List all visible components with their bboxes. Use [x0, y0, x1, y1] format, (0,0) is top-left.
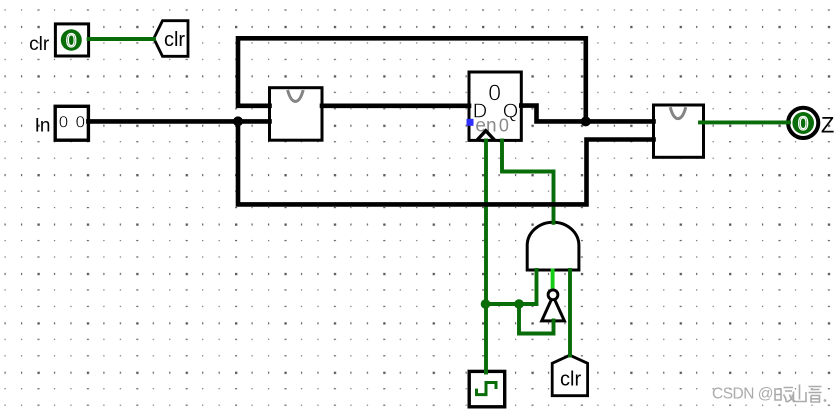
wire Q to U2 input 1: [521, 106, 653, 122]
svg-text:0: 0: [798, 114, 809, 135]
wire U2 output to Z: [700, 120, 789, 124]
wire AND output to FF clock pin: [502, 140, 554, 222]
inverter G2 (body): [542, 296, 565, 321]
wire In net bottom loop to U2 input 2: [238, 121, 654, 204]
wire node B to AND input 1: [519, 270, 537, 304]
svg-text:0: 0: [488, 79, 501, 105]
wire AND input 3 to tunnel clr: [568, 270, 572, 356]
clock input wedge: [477, 131, 495, 141]
svg-text:In: In: [35, 116, 51, 137]
tunnel clr (bottom): [552, 355, 587, 396]
svg-text:Z: Z: [821, 113, 834, 138]
svg-text:clr: clr: [560, 368, 581, 390]
watermark: [712, 385, 826, 403]
wire In pin to U1 input: [88, 119, 269, 124]
wire clock vertical: [484, 140, 488, 372]
D flip-flop U3: [467, 72, 522, 140]
svg-text:clr: clr: [29, 34, 50, 55]
wire feedback loop to U1 input 1: [238, 38, 586, 121]
svg-text:0: 0: [59, 113, 68, 132]
svg-text:CSDN @: CSDN @: [712, 386, 773, 403]
svg-text:0: 0: [76, 113, 85, 132]
wire inverter output to AND input 2 (high): [551, 271, 555, 289]
wire clock node A to node B: [486, 302, 520, 306]
wire node B to inverter input: [519, 304, 554, 334]
input pin In (2-bit): [35, 106, 89, 140]
clock generator CLK1: [469, 371, 505, 406]
subcircuit U2: [654, 105, 704, 157]
AND gate G1: [527, 222, 579, 270]
floating enable pin (blue): [467, 119, 474, 126]
junction node Q: [581, 116, 591, 126]
wire U1 output to D: [322, 104, 469, 109]
junction node A: [481, 299, 491, 309]
svg-text:clr: clr: [164, 29, 185, 51]
inverter G2 bubble: [548, 290, 558, 300]
junction node B: [514, 299, 524, 309]
junction node In: [233, 116, 243, 126]
svg-text:0: 0: [499, 116, 509, 136]
tunnel clr (top): [154, 21, 188, 57]
input pin clr: [29, 24, 88, 56]
wire clr pin to tunnel: [89, 37, 154, 41]
subcircuit U1: [270, 88, 323, 141]
output pin Z: [788, 108, 834, 138]
svg-text:0: 0: [66, 31, 77, 52]
